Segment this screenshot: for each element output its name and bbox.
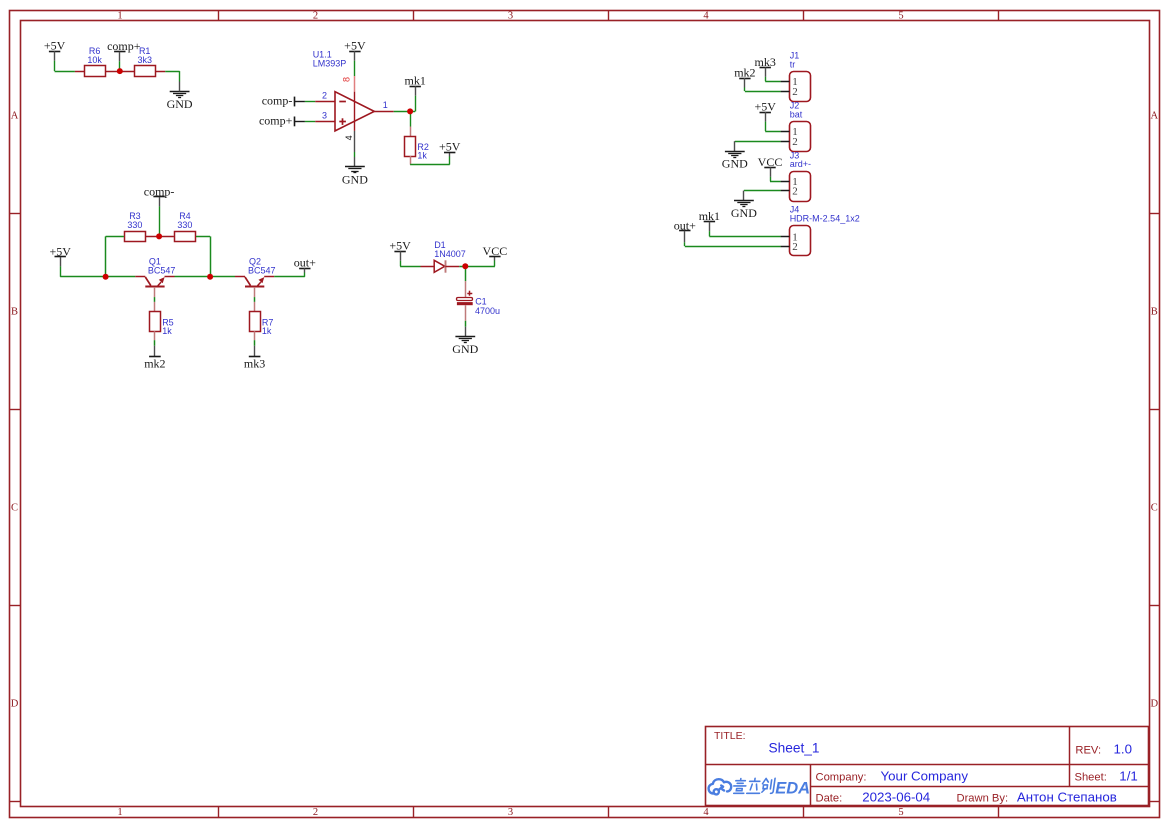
svg-text:D: D — [1151, 699, 1159, 710]
svg-text:ard+-: ard+- — [790, 159, 811, 169]
svg-text:3: 3 — [508, 807, 513, 818]
svg-text:1k: 1k — [417, 151, 427, 161]
svg-text:GND: GND — [722, 157, 748, 171]
svg-text:GND: GND — [452, 342, 478, 356]
svg-text:Sheet:: Sheet: — [1075, 771, 1107, 783]
svg-text:+5V: +5V — [389, 239, 411, 253]
svg-text:mk1: mk1 — [405, 74, 426, 88]
svg-text:4: 4 — [703, 10, 709, 21]
svg-text:GND: GND — [167, 97, 193, 111]
svg-text:330: 330 — [177, 220, 192, 230]
svg-text:10k: 10k — [87, 55, 102, 65]
svg-text:4: 4 — [703, 807, 709, 818]
svg-text:GND: GND — [731, 206, 757, 220]
svg-text:mk2: mk2 — [734, 65, 755, 79]
svg-text:1k: 1k — [262, 326, 272, 336]
svg-text:C: C — [11, 503, 18, 514]
svg-text:GND: GND — [342, 172, 368, 186]
svg-text:5: 5 — [898, 807, 903, 818]
svg-text:mk2: mk2 — [144, 357, 165, 371]
svg-text:HDR-M-2.54_1x2: HDR-M-2.54_1x2 — [790, 214, 860, 224]
svg-text:8: 8 — [341, 77, 351, 82]
svg-text:1k: 1k — [162, 326, 172, 336]
svg-text:2: 2 — [322, 91, 327, 101]
svg-text:BC547: BC547 — [248, 266, 276, 276]
svg-text:EDA: EDA — [775, 779, 810, 797]
svg-text:4: 4 — [344, 135, 354, 140]
svg-text:Антон Степанов: Антон Степанов — [1017, 789, 1117, 804]
svg-text:out+: out+ — [294, 256, 316, 270]
svg-text:A: A — [11, 111, 19, 122]
svg-text:Your Company: Your Company — [881, 769, 969, 784]
svg-text:+5V: +5V — [754, 100, 776, 114]
svg-text:tr: tr — [790, 59, 796, 69]
svg-text:2: 2 — [792, 186, 798, 198]
svg-text:comp+: comp+ — [259, 114, 293, 128]
svg-text:bat: bat — [790, 110, 803, 120]
svg-text:1.0: 1.0 — [1114, 741, 1133, 756]
svg-text:TITLE:: TITLE: — [714, 730, 746, 742]
svg-text:2: 2 — [313, 10, 318, 21]
svg-text:C: C — [1151, 503, 1158, 514]
svg-text:330: 330 — [127, 220, 142, 230]
svg-text:3: 3 — [508, 10, 513, 21]
svg-text:D: D — [11, 699, 19, 710]
svg-text:BC547: BC547 — [148, 266, 176, 276]
svg-text:REV:: REV: — [1075, 744, 1101, 756]
svg-text:+5V: +5V — [439, 140, 461, 154]
svg-text:1: 1 — [117, 10, 122, 21]
svg-text:B: B — [11, 307, 18, 318]
svg-text:2: 2 — [792, 86, 798, 98]
svg-text:4700u: 4700u — [475, 306, 500, 316]
svg-text:Drawn By:: Drawn By: — [957, 792, 1009, 804]
svg-text:2023-06-04: 2023-06-04 — [862, 789, 930, 804]
svg-text:1: 1 — [117, 807, 122, 818]
svg-text:A: A — [1151, 111, 1159, 122]
svg-text:comp-: comp- — [262, 94, 293, 108]
svg-text:2: 2 — [792, 241, 798, 253]
svg-text:mk3: mk3 — [244, 357, 265, 371]
svg-text:1: 1 — [383, 100, 388, 110]
svg-text:5: 5 — [898, 10, 903, 21]
svg-text:Sheet_1: Sheet_1 — [769, 740, 820, 755]
svg-text:+5V: +5V — [344, 39, 366, 53]
svg-text:+5V: +5V — [44, 39, 66, 53]
svg-text:3: 3 — [322, 111, 327, 121]
svg-text:1/1: 1/1 — [1119, 768, 1138, 783]
svg-text:LM393P: LM393P — [313, 58, 347, 68]
svg-text:2: 2 — [313, 807, 318, 818]
svg-text:2: 2 — [792, 136, 798, 148]
svg-text:Company:: Company: — [816, 772, 867, 784]
svg-text:3k3: 3k3 — [137, 55, 152, 65]
svg-text:B: B — [1151, 307, 1158, 318]
svg-text:1N4007: 1N4007 — [434, 249, 466, 259]
svg-text:Date:: Date: — [816, 792, 843, 804]
